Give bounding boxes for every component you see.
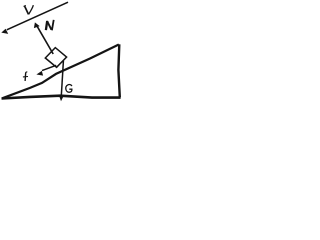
vector N arrowhead [34,22,40,28]
vector N shaft [37,25,54,54]
label G [66,85,73,93]
vector V shaft [7,2,68,30]
gravity vector G arrowhead [59,96,63,101]
incline right edge [118,44,119,97]
incline bottom edge [2,96,121,99]
incline hypotenuse [3,45,119,99]
block (rotated square on slope) [45,48,66,68]
friction vector f arrowhead [36,71,43,76]
friction vector f shaft [42,65,56,70]
gravity vector G shaft [61,61,63,96]
label N [46,20,54,30]
label V [24,5,34,14]
label f [23,72,28,81]
vector V arrowhead [1,29,8,34]
